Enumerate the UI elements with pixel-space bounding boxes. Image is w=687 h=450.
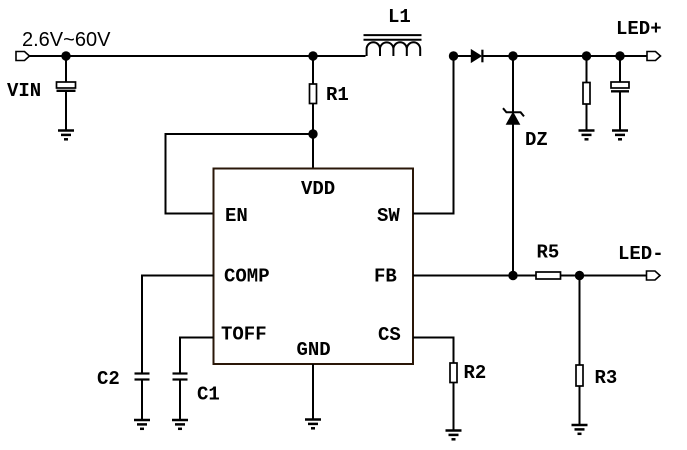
svg-text:C2: C2 <box>97 368 120 390</box>
svg-text:EN: EN <box>225 205 248 227</box>
node output resistor junction <box>582 51 591 60</box>
svg-text:FB: FB <box>374 266 397 288</box>
svg-text:SW: SW <box>377 205 400 227</box>
svg-text:VIN: VIN <box>7 80 41 102</box>
svg-text:R3: R3 <box>595 367 618 389</box>
node DZ top junction <box>508 51 517 60</box>
wire R1 top <box>312 56 314 84</box>
node R1 top junction <box>308 51 317 60</box>
ground R2 <box>446 431 462 440</box>
svg-text:C1: C1 <box>197 384 220 406</box>
wire input cap to ground <box>65 91 67 131</box>
wire FB pin <box>413 275 513 277</box>
wire GND pin <box>312 364 314 420</box>
inductor L1 <box>364 35 422 56</box>
svg-text:DZ: DZ <box>525 129 548 151</box>
wire output resistor top <box>586 56 588 83</box>
wire FB to R5 <box>513 275 536 277</box>
wire output cap top <box>619 56 621 82</box>
wire input cap <box>65 56 67 82</box>
wire CS pin <box>413 338 454 364</box>
wire R3 bottom <box>579 386 581 425</box>
wire C1 to ground <box>179 380 181 421</box>
wire DZ bottom <box>512 124 514 275</box>
ground R3 <box>572 425 588 434</box>
capacitor input (polarized) <box>57 82 76 91</box>
wire COMP pin <box>142 276 214 374</box>
wire output resistor bottom <box>586 104 588 131</box>
svg-text:GND: GND <box>297 339 331 361</box>
ground output resistor <box>579 131 595 140</box>
wire R1 bottom <box>312 104 314 135</box>
svg-text:L1: L1 <box>388 6 411 28</box>
svg-text:LED-: LED- <box>618 243 664 265</box>
svg-text:CS: CS <box>378 324 401 346</box>
node output cap junction <box>615 51 624 60</box>
resistor R3 <box>576 365 583 386</box>
svg-text:LED+: LED+ <box>616 18 662 40</box>
svg-text:R2: R2 <box>464 362 487 384</box>
svg-text:R5: R5 <box>537 242 560 264</box>
wire SW pin <box>413 56 454 214</box>
wire diode to LED+ <box>483 55 648 57</box>
capacitor output (polarized) <box>611 82 629 91</box>
capacitor C2 <box>135 374 150 380</box>
wire TOFF pin <box>180 338 214 374</box>
node SW junction <box>449 51 458 60</box>
node VDD junction <box>308 129 317 138</box>
diode D1 <box>471 50 482 63</box>
ground C2 <box>134 420 150 429</box>
resistor R2 <box>450 363 457 383</box>
wire output cap to ground <box>619 91 621 131</box>
zener diode DZ <box>503 108 524 124</box>
svg-text:VDD: VDD <box>301 178 335 200</box>
port LED- <box>647 271 661 280</box>
node VIN junction <box>61 51 70 60</box>
resistor R5 <box>536 272 561 279</box>
wire DZ top <box>512 56 514 112</box>
ground GND pin <box>305 420 321 429</box>
svg-text:COMP: COMP <box>224 266 270 288</box>
wire EN loop <box>166 134 314 214</box>
ground output cap <box>612 131 628 140</box>
wire top rail left <box>30 55 366 57</box>
svg-text:2.6V~60V: 2.6V~60V <box>22 29 111 51</box>
resistor output (unlabeled) <box>583 83 590 105</box>
node FB junction <box>508 271 517 280</box>
port LED+ <box>647 52 661 61</box>
wire SW to diode <box>454 55 472 57</box>
wire R3 top <box>579 276 581 366</box>
capacitor C1 <box>173 374 188 380</box>
svg-text:TOFF: TOFF <box>221 324 267 346</box>
node R3 junction <box>575 271 584 280</box>
wire VDD pin <box>312 134 314 169</box>
resistor R1 <box>310 84 317 104</box>
wire C2 to ground <box>141 380 143 421</box>
port VIN <box>16 52 30 61</box>
svg-text:R1: R1 <box>326 84 349 106</box>
wire R5 to LED- <box>561 275 648 277</box>
wire R2 bottom <box>453 383 455 431</box>
ground input cap <box>58 131 74 140</box>
ground C1 <box>172 420 188 429</box>
op-amp U1 IC body <box>214 169 414 365</box>
